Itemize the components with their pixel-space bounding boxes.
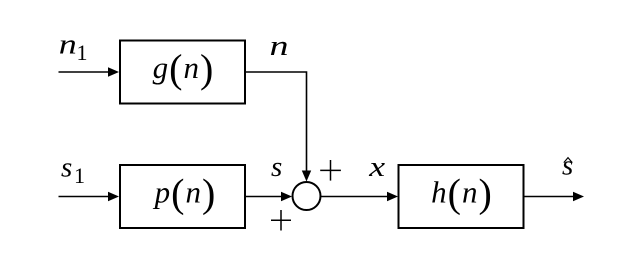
wire: h(n) output arrow [525, 192, 585, 201]
svg-text:n: n [270, 30, 289, 62]
wire: n1 input arrow into g(n) [59, 67, 120, 76]
svg-text:s: s [61, 152, 72, 184]
block p(n) [120, 165, 245, 228]
svg-text:n: n [59, 29, 77, 61]
svg-text:g(n): g(n) [153, 46, 215, 91]
summing junction [293, 182, 321, 210]
wire: s1 input arrow into p(n) [59, 192, 120, 201]
svg-text:1: 1 [74, 163, 85, 188]
svg-text:1: 1 [77, 40, 88, 65]
block g(n) [120, 41, 245, 104]
wire: g(n) output to summing junction (right then down) [246, 72, 311, 182]
wire: p(n) output arrow into summing junction [246, 192, 292, 201]
plus sign bottom-left of junction [271, 210, 291, 231]
svg-text:p(n): p(n) [153, 171, 217, 216]
svg-text:x: x [368, 151, 385, 183]
svg-text:h(n): h(n) [431, 171, 493, 216]
plus sign top-right of junction [320, 160, 341, 181]
svg-text:s: s [271, 151, 282, 183]
block h(n) [399, 165, 524, 228]
wire: summing junction output arrow into h(n) [321, 192, 398, 201]
svg-text:s: s [562, 150, 573, 182]
